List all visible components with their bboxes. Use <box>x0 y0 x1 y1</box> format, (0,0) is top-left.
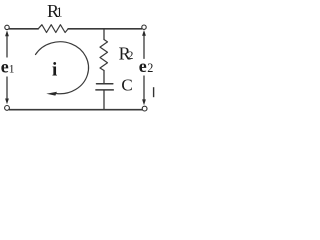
wire: top left segment (node in+ to R1) <box>9 28 38 30</box>
capacitor C top plate <box>97 83 113 85</box>
svg-text:R1: R1 <box>47 1 63 21</box>
node: output top terminal (open circle) <box>142 25 146 29</box>
mesh current i loop arc (clockwise) <box>36 42 89 94</box>
svg-text:e2: e2 <box>139 56 154 76</box>
e1 arrowhead down (toward bottom-left node) <box>5 99 9 105</box>
resistor R2 (vertical zigzag) <box>100 40 108 71</box>
svg-text:i: i <box>52 60 57 81</box>
node: input bottom terminal (open circle) <box>5 106 10 111</box>
svg-text:R2: R2 <box>119 43 134 63</box>
node: input top terminal (open circle) <box>5 25 9 29</box>
svg-text:e1: e1 <box>1 56 15 76</box>
e2 arrowhead down (toward bottom-right node) <box>142 99 146 105</box>
stray mark: short vertical bar right of bottom arrow <box>153 87 155 97</box>
wire: lead capacitor C to bottom wire <box>103 91 105 110</box>
wire: lead R2 to capacitor C top plate <box>103 71 105 84</box>
wire: bottom segment (node in- to node out-) <box>10 109 142 111</box>
e2 arrowhead up (toward top-right node) <box>142 30 146 36</box>
mesh current i arrowhead (pointing left) <box>46 92 57 96</box>
voltage e2 arrow shaft lower (right side) <box>143 76 145 100</box>
capacitor C bottom plate <box>96 89 113 91</box>
voltage e2 arrow shaft upper (right side) <box>143 33 145 59</box>
svg-text:C: C <box>121 75 132 94</box>
wire: top right segment (R1 to node out+) <box>68 28 142 30</box>
e1 arrowhead up (toward top-left node) <box>5 30 9 36</box>
voltage e1 arrow shaft lower (left side) <box>6 77 8 100</box>
node: output bottom terminal (open circle) <box>142 106 147 111</box>
voltage e1 arrow shaft upper (left side) <box>6 33 8 57</box>
resistor R1 (zigzag on top wire) <box>38 25 68 33</box>
wire: branch top lead (top wire down to R2) <box>103 29 105 40</box>
